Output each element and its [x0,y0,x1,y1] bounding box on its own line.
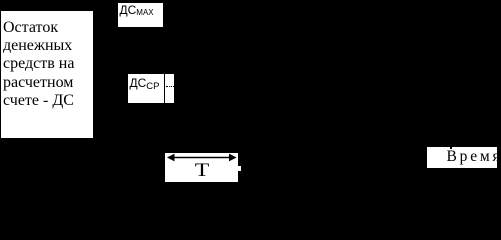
axis tick above Время box (black, on transparent area) [450,140,453,149]
line under ДСмах box (black, on transparent area) [117,27,162,29]
white nub on right edge of arrow patch [238,166,241,171]
label box ДСмах (max cash level) [117,2,164,28]
double-headed arrow marking period T [165,151,241,165]
label box ДСср (average cash level) [127,73,167,105]
label Т (period) [193,160,211,182]
white patch holding the period arrow [165,153,238,182]
x-axis label box "Время" [426,146,501,169]
small box with dotted level-line fragment, right of ДСср [164,73,175,105]
y-axis label box: "Остаток денежных средств на расчетном счете - ДС" [0,10,94,139]
thick right border bar at right edge of Время box [497,147,501,168]
